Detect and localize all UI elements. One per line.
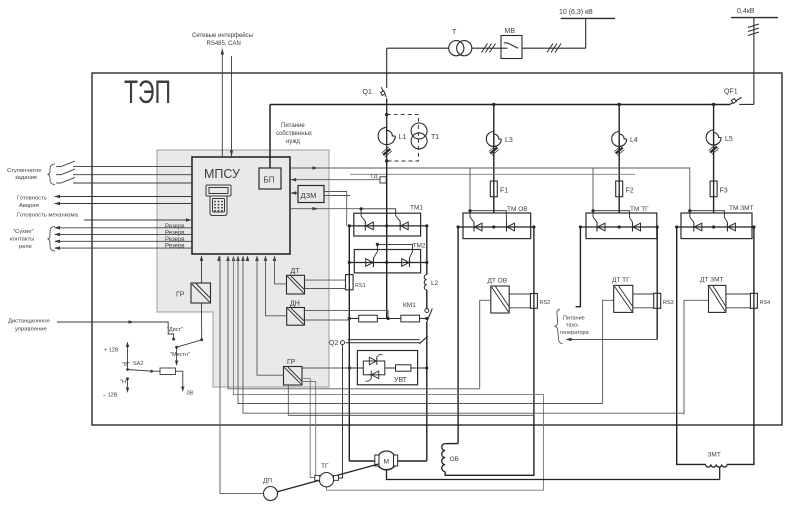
svg-text:+ 12В: + 12В <box>104 348 119 354</box>
field winding OV coil <box>442 444 445 472</box>
reactor L2 <box>424 275 427 290</box>
brace dry contacts <box>48 227 56 252</box>
wire: main rectifier column <box>386 161 388 319</box>
thyristor VS3 of TM2 <box>366 259 374 267</box>
wire: TG excitation left lead <box>576 227 581 307</box>
svg-text:ДП: ДП <box>263 478 272 485</box>
svg-text:Дистанционное: Дистанционное <box>8 319 50 325</box>
divider row with resistors <box>349 318 427 320</box>
wire: GR1 to MPSU <box>201 256 203 283</box>
wire: OV field loop <box>457 227 459 444</box>
svg-text:МПСУ: МПСУ <box>204 167 240 181</box>
svg-text:ТМ2: ТМ2 <box>413 243 426 250</box>
wire: alarm output <box>55 203 192 205</box>
svg-text:Питание: Питание <box>281 123 305 129</box>
wire: second control line <box>350 173 635 175</box>
svg-text:RS4: RS4 <box>760 300 771 306</box>
sensor DT box <box>287 275 305 294</box>
wire: GR2 bottom drop <box>287 385 289 415</box>
motor M <box>377 451 396 470</box>
tachogenerator TG <box>319 473 333 487</box>
wire: DT OV sense to MPSU <box>480 300 491 389</box>
wire: network interface lines RS485 CAN <box>221 52 223 157</box>
svg-text:нужд: нужд <box>286 139 300 145</box>
svg-text:Готовность: Готовность <box>17 196 47 202</box>
enclosure frame TEP <box>92 73 782 425</box>
brake coil ZMT <box>706 464 728 467</box>
svg-text:генератора: генератора <box>560 330 590 336</box>
svg-text:реле: реле <box>19 244 32 250</box>
node: dot L1 bottom <box>385 159 388 162</box>
svg-text:F1: F1 <box>500 188 508 195</box>
transformer T1 <box>411 123 427 139</box>
svg-text:"Дист": "Дист" <box>167 327 183 333</box>
svg-text:Сетевые интерфейсы: Сетевые интерфейсы <box>192 32 253 39</box>
svg-text:"Местн": "Местн" <box>170 352 190 358</box>
wire: remote control input <box>57 322 174 339</box>
svg-text:Резерв: Резерв <box>165 231 185 237</box>
wire: from GR1 to selector pivot <box>201 303 203 340</box>
svg-text:управление: управление <box>15 327 47 333</box>
wire: motor frame to ZMT return <box>387 470 720 480</box>
wire: sense cable DP <box>220 256 264 493</box>
dashed group box around L1 and T1 <box>387 115 419 161</box>
svg-text:ГД: ГД <box>371 174 378 180</box>
wire: return bus y419 <box>288 414 534 416</box>
wire: 380V bus y=104.5 <box>270 104 730 106</box>
fuse F3 <box>710 181 717 197</box>
shunt RS3 <box>654 293 661 308</box>
wire with phase marks MV to 10kV bar <box>522 47 586 49</box>
svg-text:Q2: Q2 <box>329 340 338 347</box>
svg-text:RS2: RS2 <box>540 300 551 306</box>
svg-text:ДТ ЗМТ: ДТ ЗМТ <box>700 277 724 284</box>
switch contacts: step inputs <box>56 161 192 183</box>
wire: GR2 to armature bus <box>302 367 349 369</box>
thyristor module TM1 <box>354 213 421 236</box>
isolator GR1 <box>191 283 211 303</box>
transformer T <box>449 41 464 56</box>
transducer mark under L3 <box>489 146 499 156</box>
wire: DT to MPSU <box>275 256 287 284</box>
wire: GR2 to MPSU <box>257 256 284 375</box>
wire: relay outputs x4 <box>55 228 192 248</box>
sensor DT OV <box>491 286 509 313</box>
resistor in UVT <box>396 365 411 371</box>
wire: ready output <box>55 196 192 198</box>
reactor L1 <box>378 127 395 144</box>
wire: mechanism ready input <box>84 219 191 221</box>
svg-text:М: М <box>384 459 390 466</box>
wire: DT to RS1 pair <box>305 279 346 281</box>
svg-text:Резерв: Резерв <box>165 224 185 230</box>
node: 0.4kV busbar <box>731 17 778 19</box>
potentiometer <box>160 368 176 375</box>
svg-text:ДН: ДН <box>290 301 300 308</box>
svg-text:"Сухие": "Сухие" <box>13 229 34 235</box>
wire: sense cable to TG tacho <box>234 256 544 490</box>
svg-text:ДТ: ДТ <box>291 268 301 275</box>
breaker MV <box>501 36 522 59</box>
svg-text:"В": "В" <box>122 362 130 368</box>
wire: HV feeder horizontal to transformer T <box>387 47 449 49</box>
svg-text:"Н": "Н" <box>120 380 128 386</box>
svg-text:L3: L3 <box>505 137 513 144</box>
sensor DT ZMT <box>709 285 726 312</box>
svg-text:Ступенчатое: Ступенчатое <box>7 168 42 174</box>
disconnector Q1 <box>386 48 388 88</box>
svg-text:RS485, CAN: RS485, CAN <box>207 41 241 47</box>
wire: ZMT coil return stub <box>719 467 721 480</box>
transducer mark under L4 <box>614 146 624 156</box>
branch L5/F3 feeder <box>712 103 715 106</box>
svg-text:собственных: собственных <box>276 131 312 137</box>
transducer mark under L5 <box>709 145 719 155</box>
svg-text:L2: L2 <box>431 280 439 287</box>
svg-text:F3: F3 <box>720 188 728 195</box>
svg-text:ТМ ОВ: ТМ ОВ <box>507 206 528 213</box>
thyristor module TM2 <box>354 250 420 273</box>
module DZM box <box>298 186 324 203</box>
branch L4/F2 feeder <box>618 103 621 106</box>
resistor R1 <box>359 315 378 322</box>
svg-text:QF1: QF1 <box>724 89 738 96</box>
position sensor DP <box>264 487 278 501</box>
svg-text:RS1: RS1 <box>355 283 366 289</box>
svg-text:F2: F2 <box>626 188 634 195</box>
controller MPSU box <box>192 157 290 254</box>
breaker QF1 <box>739 103 754 105</box>
thyristor VS4 of TM2 with gate link <box>377 244 412 258</box>
branch L3/F1 feeder <box>492 103 495 106</box>
svg-text:БП: БП <box>264 176 275 185</box>
sensor DT TG <box>614 285 633 312</box>
wire: DZM to MPSU arrow <box>291 192 298 194</box>
svg-text:ТМ ЗМТ: ТМ ЗМТ <box>729 205 754 212</box>
wire: DT TG sense to MPSU <box>603 300 614 403</box>
reactor L3 <box>486 132 501 147</box>
wire: DN to MPSU <box>266 256 287 316</box>
svg-text:ГР: ГР <box>287 359 296 366</box>
node: dot L1 top <box>385 113 388 116</box>
wire: TG right lead via RS3 to tacho supply <box>656 227 658 339</box>
svg-text:ТГ: ТГ <box>321 463 329 470</box>
wire: MPSU output to TM1 gate <box>290 208 361 210</box>
sensor DN box <box>287 308 305 326</box>
thyristor module TM ZMT <box>681 213 752 239</box>
svg-text:Q1: Q1 <box>363 89 372 96</box>
svg-text:– 12В: – 12В <box>103 393 118 399</box>
svg-text:МВ: МВ <box>505 28 516 35</box>
thyristor module TM TG <box>586 213 657 239</box>
svg-text:Резерв: Резерв <box>165 237 185 243</box>
wire with phase marks between T and MV <box>472 47 501 49</box>
fuse F2 <box>616 181 623 197</box>
svg-text:ДТ ОВ: ДТ ОВ <box>488 278 508 285</box>
arrows into MPSU bottom <box>200 255 277 261</box>
svg-text:0В: 0В <box>187 391 194 397</box>
wire: DT ZMT sense to MPSU <box>684 300 709 414</box>
svg-text:L1: L1 <box>399 134 407 141</box>
svg-text:L5: L5 <box>725 136 733 143</box>
shunt RS2 <box>530 294 537 309</box>
svg-text:ДТ ТГ: ДТ ТГ <box>612 277 630 284</box>
shunt RS1 <box>346 275 354 290</box>
svg-text:Готовность механизма: Готовность механизма <box>17 213 79 219</box>
svg-text:0,4кВ: 0,4кВ <box>737 8 755 15</box>
svg-text:ТМ ТГ: ТМ ТГ <box>630 206 649 213</box>
wire: sense cable to DT TG <box>238 256 603 404</box>
wire: GR2 to TG sensor pair <box>302 378 315 477</box>
svg-text:ЗМТ: ЗМТ <box>708 452 721 459</box>
node: 10kV busbar <box>585 18 587 48</box>
svg-text:ГР: ГР <box>176 292 185 299</box>
wire: left DC column <box>348 226 350 461</box>
wire: 0.4kV drop with phase marks <box>753 18 755 105</box>
thyristor VS2 of TM1 with gate link <box>361 209 400 222</box>
MPSU operator panel icon <box>206 185 231 216</box>
svg-text:УВТ: УВТ <box>394 377 408 384</box>
isolator GR2 <box>284 367 303 386</box>
thyristor module TM OV <box>463 213 531 239</box>
shunt RS4 <box>750 293 757 308</box>
svg-text:ДЗМ: ДЗМ <box>301 191 317 200</box>
svg-text:ТМ1: ТМ1 <box>410 205 423 212</box>
svg-text:SA2: SA2 <box>133 361 143 367</box>
suppressor UVT box <box>357 351 417 385</box>
svg-text:тахо-: тахо- <box>566 323 579 329</box>
reactor L5 <box>706 130 721 145</box>
shaft coupling line <box>277 464 379 492</box>
cabinet internal gray zone <box>157 150 329 387</box>
resistor R2 <box>401 315 420 322</box>
wire: sense cable to DT ZMT <box>243 256 684 413</box>
thyristor VS1 of TM1 <box>364 221 366 230</box>
svg-text:Авария: Авария <box>19 203 39 209</box>
wire: DZM outputs to TM1/TM2 gates <box>324 192 347 226</box>
svg-text:10 (6,3) кВ: 10 (6,3) кВ <box>559 9 593 16</box>
UVT anti-parallel thyristor loop <box>363 361 385 375</box>
svg-text:задание: задание <box>15 175 37 181</box>
brace step setpoint <box>48 164 56 185</box>
wire: BP supply from 380V bus <box>269 105 271 169</box>
svg-text:Т: Т <box>452 29 457 36</box>
power supply BP box <box>259 168 281 189</box>
svg-text:L4: L4 <box>630 137 638 144</box>
svg-text:Резерв: Резерв <box>165 244 185 250</box>
sensor GD on main column <box>290 179 380 181</box>
svg-text:КМ1: КМ1 <box>403 302 416 309</box>
svg-text:контакты: контакты <box>10 237 34 243</box>
wire: right DC column with L2 and KM1 <box>426 226 428 275</box>
wire: gate firing bus to TM OV/TG/ZMT <box>290 168 690 211</box>
svg-text:ОВ: ОВ <box>450 456 459 463</box>
svg-text:RS3: RS3 <box>663 300 674 306</box>
label tacho supply with brace <box>555 309 563 344</box>
svg-text:Питание: Питание <box>563 316 585 322</box>
wire: mestn to potentiometer <box>176 347 178 362</box>
wire: sense cable to DT OV <box>228 256 480 389</box>
wire: DN to divider <box>304 311 388 319</box>
svg-text:Т1: Т1 <box>431 134 439 141</box>
reactor L4 <box>612 132 627 147</box>
wire: armature leads <box>349 460 375 462</box>
fuse F1 <box>490 181 497 197</box>
svg-text:ТЭП: ТЭП <box>124 74 171 110</box>
wire: ZMT brake loop <box>677 227 706 464</box>
wire: Q2 column <box>339 345 343 478</box>
transducer mark under L1 <box>382 147 392 157</box>
